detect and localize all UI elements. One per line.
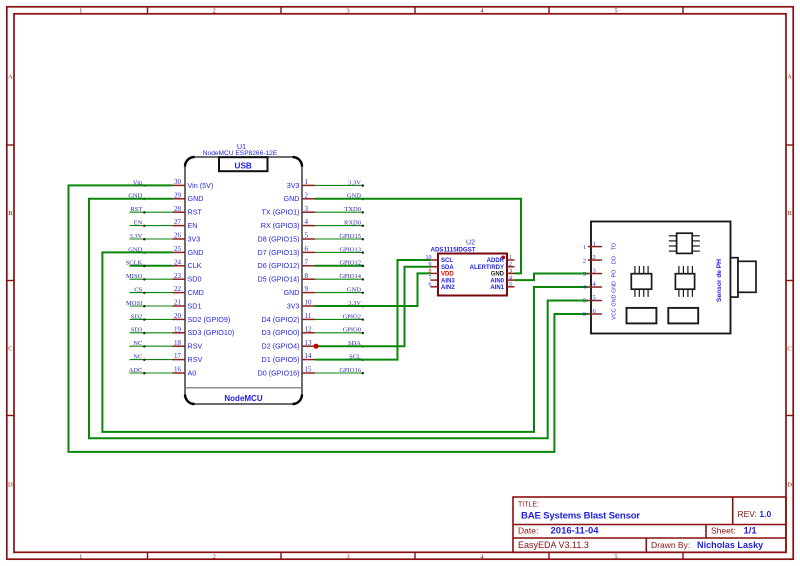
wire stub net GPIO15 at U1 pin 5: [315, 238, 363, 240]
PH sensor pin 3 PO: [583, 267, 618, 277]
U1 pin 29 GND: [173, 191, 204, 203]
U2 pin1 orientation dot: [501, 256, 505, 260]
net label GND (U1 pin 29): [128, 193, 145, 201]
wire net PO: U2 pin4 AIN0 to PH sensor pin3 PO: [515, 274, 589, 281]
svg-text:Drawn By:: Drawn By:: [651, 540, 690, 550]
U1 pin 25 GND: [173, 245, 204, 257]
U1 pin 19 SD3 (GPIO10): [173, 325, 235, 337]
wire stub net MOSI at U1 pin 21: [130, 305, 173, 307]
net label GPIO15 (U1 pin 5): [339, 233, 364, 241]
svg-text:RSV: RSV: [188, 355, 203, 364]
svg-text:PO: PO: [612, 270, 618, 278]
svg-text:EN: EN: [188, 221, 198, 230]
svg-text:26: 26: [174, 232, 182, 240]
svg-text:27: 27: [174, 218, 182, 226]
svg-text:5: 5: [593, 294, 596, 301]
U1 pin 7 D6 (GPIO12): [258, 258, 315, 270]
svg-text:SD0: SD0: [188, 275, 202, 284]
svg-text:SCL: SCL: [441, 258, 453, 264]
svg-text:1: 1: [305, 178, 309, 186]
net label GND (U1 pin 2): [347, 193, 364, 201]
U1 pin 12 D3 (GPIO0): [262, 325, 315, 337]
svg-text:1/1: 1/1: [744, 526, 758, 537]
svg-text:3: 3: [509, 269, 512, 275]
svg-text:1: 1: [583, 244, 586, 251]
U1 pin 13 D2 (GPIO4): [262, 339, 315, 351]
svg-text:Vin (5V): Vin (5V): [188, 181, 214, 190]
svg-text:B: B: [787, 210, 792, 217]
net label SD3 (U1 pin 19): [131, 327, 146, 334]
svg-text:D0 (GPIO16): D0 (GPIO16): [258, 368, 300, 377]
net label GPIO13 (U1 pin 6): [339, 246, 364, 254]
svg-text:9: 9: [429, 262, 432, 268]
U1 pin 15 D0 (GPIO16): [258, 366, 315, 378]
svg-text:D1 (GPIO5): D1 (GPIO5): [262, 355, 300, 364]
svg-text:TXD0: TXD0: [344, 206, 361, 213]
svg-text:AIN1: AIN1: [490, 285, 504, 291]
net label SCLK (U1 pin 24): [126, 260, 146, 267]
svg-text:D5 (GPIO14): D5 (GPIO14): [258, 275, 300, 284]
svg-text:D4 (GPIO2): D4 (GPIO2): [262, 315, 300, 324]
svg-text:23: 23: [174, 272, 182, 280]
net label GPIO12 (U1 pin 7): [339, 260, 364, 267]
wire stub net 3.3V at U1 pin 1: [315, 184, 363, 186]
svg-text:TITLE:: TITLE:: [518, 502, 539, 509]
U1 pin 2 GND: [284, 191, 315, 203]
svg-text:3.3V: 3.3V: [129, 233, 142, 240]
svg-text:VCC: VCC: [612, 308, 618, 319]
net label 3.3V (U1 pin 1): [348, 179, 364, 187]
svg-text:GND: GND: [612, 281, 618, 293]
net label GPIO14 (U1 pin 8): [339, 273, 364, 280]
svg-text:AIN0: AIN0: [490, 278, 504, 284]
svg-text:ADDR: ADDR: [487, 258, 505, 264]
wire stub net NC at U1 pin 18: [130, 345, 173, 347]
PH sensor middle-right IC drawing: [675, 266, 694, 297]
svg-text:15: 15: [305, 366, 313, 374]
svg-text:EN: EN: [134, 220, 143, 227]
frame row letters A-D: [8, 73, 792, 488]
svg-text:AIN3: AIN3: [441, 278, 455, 284]
svg-text:1: 1: [593, 240, 596, 247]
svg-text:D: D: [787, 481, 792, 488]
frame row tick marks: [7, 145, 793, 416]
svg-text:AIN2: AIN2: [441, 285, 455, 291]
svg-text:7: 7: [429, 275, 432, 281]
svg-text:8: 8: [429, 269, 432, 275]
net label 3.3V (U1 pin 26): [129, 233, 145, 241]
svg-text:A: A: [8, 73, 13, 80]
svg-text:MISO: MISO: [126, 273, 143, 280]
svg-text:5: 5: [509, 282, 512, 288]
svg-text:SD3 (GPIO10): SD3 (GPIO10): [188, 328, 235, 337]
svg-text:SCLK: SCLK: [126, 260, 143, 267]
svg-text:C: C: [8, 345, 12, 352]
svg-text:A: A: [787, 73, 792, 80]
net label SD2 (U1 pin 20): [131, 313, 146, 321]
U2 pin 3 GND: [491, 269, 515, 278]
frame column numbers 1-5: [79, 8, 618, 561]
net label SDA (U1 pin 13): [348, 340, 364, 347]
net label RXD0 (U1 pin 4): [344, 220, 364, 228]
U1 pin 10 3V3: [287, 299, 315, 311]
svg-text:GPIO13: GPIO13: [339, 246, 361, 253]
svg-text:24: 24: [174, 258, 182, 266]
PH sensor middle-left IC drawing: [631, 266, 651, 297]
wire stub net SCLK at U1 pin 24: [130, 265, 173, 267]
wire stub net GPIO14 at U1 pin 8: [315, 278, 363, 280]
svg-text:3: 3: [346, 553, 349, 560]
svg-text:19: 19: [174, 325, 182, 333]
svg-text:3: 3: [583, 271, 586, 278]
U1 pin 28 RST: [173, 205, 203, 217]
net label 3.3V (U1 pin 10): [348, 300, 364, 308]
U1 pin 16 A0: [173, 366, 197, 378]
U1 pin 22 CMD: [173, 285, 204, 297]
svg-text:SD2 (GPIO9): SD2 (GPIO9): [188, 315, 231, 324]
svg-text:A0: A0: [188, 368, 197, 377]
net label GND (U1 pin 25): [128, 246, 145, 254]
svg-text:2: 2: [593, 254, 596, 261]
svg-text:Nicholas Lasky: Nicholas Lasky: [697, 540, 764, 550]
net label Vin (U1 pin 30): [133, 179, 146, 187]
wire stub net TXD0 at U1 pin 3: [315, 211, 363, 213]
svg-text:1: 1: [79, 553, 82, 560]
U1 body outline: [185, 157, 302, 404]
svg-text:3V3: 3V3: [287, 301, 300, 310]
U1 pin 24 CLK: [173, 258, 202, 270]
U1 pin 9 GND: [284, 285, 315, 297]
svg-text:8: 8: [305, 272, 309, 280]
wire stub net GND at U1 pin 9: [315, 292, 363, 294]
wire stub net ADC at U1 pin 16: [130, 372, 173, 374]
svg-text:13: 13: [305, 339, 313, 347]
wire net 3.3V: U1 pin10 to U2 pin8 VDD: [315, 273, 431, 306]
svg-text:NC: NC: [133, 340, 142, 347]
svg-text:2: 2: [583, 257, 586, 264]
svg-text:2: 2: [305, 191, 309, 199]
svg-text:1: 1: [79, 8, 82, 15]
svg-text:GPIO14: GPIO14: [339, 273, 361, 280]
svg-text:NC: NC: [133, 354, 142, 361]
PH sensor pin 1 TO: [583, 240, 618, 250]
svg-text:REV: 1.0: REV: 1.0: [738, 509, 772, 519]
U1 pin 5 D8 (GPIO15): [258, 232, 315, 244]
PH sensor pin 6 VCC: [583, 308, 618, 320]
svg-text:GPIO12: GPIO12: [339, 260, 361, 267]
U1 pin 21 SD1: [173, 299, 202, 311]
svg-text:20: 20: [174, 312, 182, 320]
svg-text:RST: RST: [130, 206, 142, 213]
svg-text:3V3: 3V3: [287, 181, 300, 190]
svg-text:B: B: [8, 210, 13, 217]
svg-text:CLK: CLK: [188, 261, 202, 270]
svg-text:GPIO16: GPIO16: [339, 367, 361, 374]
net label MISO (U1 pin 23): [126, 273, 145, 280]
svg-text:11: 11: [305, 312, 312, 320]
svg-text:GPIO0: GPIO0: [343, 327, 361, 334]
wire stub net SD3 at U1 pin 19: [130, 332, 173, 334]
svg-text:GND: GND: [284, 194, 300, 203]
net label GND (U1 pin 9): [347, 287, 364, 294]
U2 pin 6 AIN2: [429, 282, 456, 291]
svg-text:17: 17: [174, 352, 182, 360]
svg-text:6: 6: [305, 245, 309, 253]
PH sensor BNC connector neck: [731, 258, 739, 297]
U1 pin 30 Vin (5V): [173, 178, 214, 190]
svg-text:6: 6: [429, 282, 432, 288]
svg-text:TX (GPIO1): TX (GPIO1): [262, 208, 300, 217]
net label EN (U1 pin 27): [134, 220, 146, 228]
svg-text:14: 14: [305, 352, 313, 360]
U2 pin 5 AIN1: [490, 282, 514, 291]
PH sensor pin 4 GND: [583, 281, 618, 293]
svg-text:RX (GPIO3): RX (GPIO3): [261, 221, 300, 230]
svg-text:9: 9: [305, 285, 309, 293]
wire stub net EN at U1 pin 27: [130, 225, 173, 227]
U1 pin 1 3V3: [287, 178, 315, 190]
wire net GND: U1 pin2 to U2 pin3 GND: [315, 199, 521, 274]
PH sensor module body outline: [591, 222, 731, 334]
svg-text:RSV: RSV: [188, 342, 203, 351]
svg-text:4: 4: [509, 275, 512, 281]
wire stub net GPIO0 at U1 pin 12: [315, 332, 363, 334]
svg-text:28: 28: [174, 205, 182, 213]
svg-text:30: 30: [174, 178, 182, 186]
wire stub net MISO at U1 pin 23: [130, 278, 173, 280]
net label RST (U1 pin 28): [130, 206, 145, 213]
net label ADC (U1 pin 16): [129, 367, 146, 375]
U2 pin 4 AIN0: [490, 275, 514, 284]
U2 body outline: [438, 254, 507, 296]
svg-text:4: 4: [305, 218, 309, 226]
svg-text:3: 3: [305, 205, 309, 213]
U1 pin 14 D1 (GPIO5): [262, 352, 315, 364]
U1 USB connector box: [219, 157, 268, 171]
svg-text:12: 12: [305, 325, 313, 333]
PH sensor pin 5 GND: [583, 294, 618, 306]
U1 body corner arcs: [185, 157, 302, 404]
net label GPIO0 (U1 pin 12): [343, 327, 364, 334]
svg-text:SD3: SD3: [131, 327, 143, 334]
svg-text:VDD: VDD: [441, 272, 454, 278]
svg-text:CS: CS: [134, 287, 142, 294]
U2 pin 10 SCL: [426, 255, 454, 264]
svg-text:7: 7: [305, 258, 309, 266]
svg-text:5: 5: [583, 298, 586, 305]
svg-text:3: 3: [346, 8, 349, 15]
svg-text:ADC: ADC: [129, 367, 143, 374]
svg-text:2: 2: [213, 8, 216, 15]
svg-text:SD2: SD2: [131, 313, 143, 320]
svg-text:GND: GND: [188, 248, 204, 257]
net label TXD0 (U1 pin 3): [344, 206, 364, 213]
PH sensor pin 2 DO: [583, 254, 618, 264]
svg-text:2: 2: [509, 262, 512, 268]
net label NC (U1 pin 17): [133, 354, 145, 361]
net label GPIO16 (U1 pin 15): [339, 367, 364, 375]
svg-text:25: 25: [174, 245, 182, 253]
net label NC (U1 pin 18): [133, 340, 145, 347]
wire net GND: U1 pin29 to PH sensor pin5 GND: [89, 199, 588, 438]
U2 pin 1 ADDR: [487, 255, 515, 264]
wire stub net 3.3V at U1 pin 26: [130, 238, 173, 240]
U1 pin 20 SD2 (GPIO9): [173, 312, 231, 324]
svg-text:Sheet:: Sheet:: [711, 526, 736, 536]
svg-text:5: 5: [305, 232, 309, 240]
PH sensor top IC drawing: [669, 233, 700, 253]
svg-text:10: 10: [426, 255, 432, 261]
PH sensor bottom-left pad: [627, 308, 657, 324]
svg-text:NodeMCU: NodeMCU: [224, 394, 262, 403]
svg-text:D8 (GPIO15): D8 (GPIO15): [258, 234, 300, 243]
svg-text:5: 5: [614, 553, 617, 560]
svg-text:NodeMCU ESP8266-12E: NodeMCU ESP8266-12E: [203, 150, 278, 157]
U1 pin 3 TX (GPIO1): [262, 205, 315, 217]
svg-text:SDA: SDA: [441, 265, 454, 271]
U2 pin 9 SDA: [429, 262, 455, 271]
U1 pin 27 EN: [173, 218, 198, 230]
net label SCL (U1 pin 14): [349, 354, 364, 361]
svg-text:GPIO15: GPIO15: [339, 233, 361, 240]
svg-text:BAE Systems Blast Sensor: BAE Systems Blast Sensor: [521, 511, 640, 522]
svg-text:5: 5: [614, 8, 617, 15]
svg-text:TO: TO: [612, 243, 618, 250]
wire stub net RST at U1 pin 28: [130, 211, 173, 213]
svg-text:10: 10: [305, 299, 313, 307]
svg-text:GND: GND: [188, 194, 204, 203]
wire stub net CS at U1 pin 22: [130, 292, 173, 294]
wire net GND: U1 pin25 to PH sensor pin4 GND: [102, 252, 588, 432]
svg-text:GND: GND: [491, 272, 505, 278]
wire stub net RXD0 at U1 pin 4: [315, 225, 363, 227]
U1 pin 23 SD0: [173, 272, 202, 284]
svg-text:RST: RST: [188, 208, 203, 217]
wire stub net SD2 at U1 pin 20: [130, 318, 173, 320]
net label MOSI (U1 pin 21): [126, 300, 145, 308]
svg-text:16: 16: [174, 366, 182, 374]
U2 pin 7 AIN3: [429, 275, 456, 284]
U1 pin 4 RX (GPIO3): [261, 218, 315, 230]
svg-text:2016-11-04: 2016-11-04: [551, 526, 600, 537]
U1 pin 18 RSV: [173, 339, 203, 351]
svg-text:29: 29: [174, 191, 182, 199]
svg-text:D3 (GPIO0): D3 (GPIO0): [262, 328, 300, 337]
svg-text:GND: GND: [612, 294, 618, 306]
svg-text:RXD0: RXD0: [344, 220, 361, 227]
svg-text:DO: DO: [612, 256, 618, 264]
wire net Vin: U1 pin30 to PH sensor pin6 VCC: [69, 185, 589, 452]
svg-text:1: 1: [509, 255, 512, 261]
svg-text:ALERT/RDY: ALERT/RDY: [470, 265, 504, 271]
wire stub net NC at U1 pin 17: [130, 359, 173, 361]
frame column tick marks: [148, 7, 684, 559]
U2 pin 2 ALERT/RDY: [470, 262, 515, 271]
wire net SDA: U1 pin13 to U2 pin9 SDA: [315, 267, 431, 347]
U1 pin 6 D7 (GPIO13): [258, 245, 315, 257]
svg-text:22: 22: [174, 285, 182, 293]
U2 pin 8 VDD: [429, 269, 455, 278]
svg-text:GND: GND: [284, 288, 300, 297]
PH sensor BNC connector barrel: [738, 261, 756, 292]
U1 bottom separator line: [186, 387, 301, 389]
svg-text:EasyEDA V3.11.3: EasyEDA V3.11.3: [518, 540, 589, 550]
svg-text:C: C: [787, 345, 791, 352]
svg-text:Sensor de PH: Sensor de PH: [716, 259, 723, 302]
U1 pin 17 RSV: [173, 352, 203, 364]
U1 pin 26 3V3: [173, 232, 201, 244]
svg-text:3: 3: [593, 267, 596, 274]
svg-text:USB: USB: [235, 161, 252, 170]
PH sensor bottom-right pad: [668, 308, 698, 324]
svg-text:MOSI: MOSI: [126, 300, 142, 307]
wire net SCL: U1 pin14 to U2 pin10 SCL: [315, 260, 431, 360]
svg-text:D7 (GPIO13): D7 (GPIO13): [258, 248, 300, 257]
svg-text:2: 2: [213, 553, 216, 560]
svg-text:3.3V: 3.3V: [348, 179, 361, 186]
svg-text:GPIO2: GPIO2: [343, 313, 361, 320]
U1 pin 8 D5 (GPIO14): [258, 272, 315, 284]
svg-text:D: D: [8, 481, 13, 488]
title block grid: [513, 497, 786, 552]
wire stub net GPIO2 at U1 pin 11: [315, 318, 363, 320]
svg-text:GND: GND: [347, 287, 361, 294]
svg-text:CMD: CMD: [188, 288, 204, 297]
svg-text:SD1: SD1: [188, 301, 202, 310]
svg-text:21: 21: [174, 299, 182, 307]
wire stub net GPIO16 at U1 pin 15: [315, 372, 363, 374]
svg-text:3V3: 3V3: [188, 234, 201, 243]
junction dot on net SDA at U1 pin13: [313, 344, 318, 349]
svg-text:D6 (GPIO12): D6 (GPIO12): [258, 261, 300, 270]
svg-text:D2 (GPIO4): D2 (GPIO4): [262, 342, 300, 351]
net label GPIO2 (U1 pin 11): [343, 313, 364, 321]
wire stub net GPIO13 at U1 pin 6: [315, 251, 363, 253]
wire stub net GPIO12 at U1 pin 7: [315, 265, 364, 267]
U1 pin 11 D4 (GPIO2): [262, 312, 315, 324]
svg-text:Date:: Date:: [518, 526, 538, 536]
net label CS (U1 pin 22): [134, 287, 145, 294]
svg-text:18: 18: [174, 339, 182, 347]
